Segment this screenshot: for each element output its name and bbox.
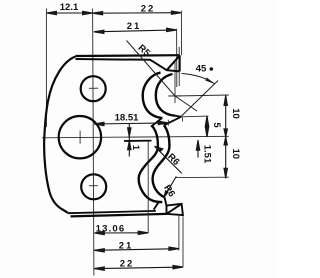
profile V point lines bbox=[151, 116, 181, 127]
dimension 21 bottom line bbox=[94, 247, 179, 252]
wire extension 13.06 right bbox=[147, 141, 149, 233]
bevel inner diagonal bbox=[167, 56, 179, 70]
dimension 1 arrows cluster bbox=[128, 124, 131, 157]
node R5 centre crosshair bbox=[168, 95, 181, 97]
profile inner S-wave bbox=[153, 125, 170, 197]
svg-text:22: 22 bbox=[120, 259, 135, 270]
svg-text:1.51: 1.51 bbox=[201, 145, 212, 164]
part outline: top edge second line bbox=[76, 56, 180, 71]
wire extension bottom 21 right bbox=[178, 216, 180, 250]
profile inner cutting arc R5 bbox=[156, 74, 175, 116]
part outline: bottom edge lower line bbox=[71, 214, 167, 217]
wire lower R6 centre reference line bbox=[176, 176, 229, 178]
profile outer S-wave bbox=[139, 126, 163, 202]
svg-text:45: 45 bbox=[196, 64, 207, 75]
dimension 22 bottom line bbox=[94, 265, 183, 270]
node top circle crosshair bbox=[89, 87, 98, 89]
svg-text:12.1: 12.1 bbox=[60, 2, 79, 13]
wire extension stub right of bevel bbox=[178, 47, 180, 86]
part outline: bottom edge upper line bbox=[68, 211, 156, 213]
hole top small circle bbox=[81, 76, 106, 101]
dimension 13.06 line bbox=[94, 231, 148, 235]
wire extension for 21 right bbox=[176, 29, 178, 87]
wire dimension 12.1 extension line left bbox=[45, 9, 47, 128]
wire V point reference line to 5-dim bbox=[181, 115, 209, 118]
node tick below V point bbox=[181, 118, 183, 122]
node big circle vertical tick bbox=[79, 131, 81, 144]
svg-text:5: 5 bbox=[211, 122, 222, 128]
dimension 22 top line bbox=[93, 11, 182, 15]
dimension 45 deg arc with arrow bbox=[182, 74, 215, 85]
svg-text:18.51: 18.51 bbox=[115, 113, 139, 124]
node bottom circle crosshair bbox=[89, 185, 98, 187]
svg-text:10: 10 bbox=[230, 108, 241, 119]
wire extension for 22 right bbox=[180, 11, 182, 56]
wire R5 centre reference line to 10-dim bbox=[175, 95, 229, 96]
svg-text:1: 1 bbox=[130, 145, 141, 151]
feature line A (+1mm) bbox=[124, 140, 152, 142]
wire R5 centre vertical extension bbox=[174, 60, 176, 103]
svg-text:21: 21 bbox=[127, 21, 142, 32]
hole big circle bbox=[59, 116, 101, 158]
profile lower connection lines to flag bbox=[154, 197, 167, 209]
svg-text:21: 21 bbox=[119, 240, 134, 251]
dimension 45 deg line bbox=[181, 81, 219, 118]
R5 leader line bbox=[127, 41, 198, 112]
dimension 21 top line bbox=[94, 28, 177, 33]
svg-text:R5: R5 bbox=[136, 43, 153, 60]
svg-text:10: 10 bbox=[230, 149, 241, 160]
wire extension bottom 22 right bbox=[182, 216, 184, 267]
part outline: right edge of bevel bbox=[179, 55, 181, 71]
part outline: top edge bbox=[76, 54, 180, 57]
node horizontal centerline bbox=[42, 136, 229, 138]
R6 lower leader line bbox=[164, 176, 176, 197]
svg-text:13.06: 13.06 bbox=[96, 223, 126, 234]
dimension 1.51 vertical arrow bbox=[196, 140, 199, 157]
dimension 12.1 line bbox=[46, 11, 92, 14]
node vertical centerline bbox=[93, 9, 94, 276]
node tick at 18.51 end bbox=[167, 120, 169, 126]
profile outer relief arc R5 region bbox=[143, 73, 163, 119]
part outline: left curved edge bbox=[44, 57, 75, 213]
dimension 10 10 vertical line bbox=[224, 96, 227, 179]
dimension 18.51 line bbox=[94, 121, 168, 126]
bottom flag bevel bbox=[167, 204, 183, 215]
R6 upper leader line bbox=[155, 146, 182, 173]
hole bottom small circle bbox=[81, 174, 106, 199]
dimension 5 vertical bbox=[205, 116, 208, 137]
svg-text:22: 22 bbox=[141, 3, 156, 14]
